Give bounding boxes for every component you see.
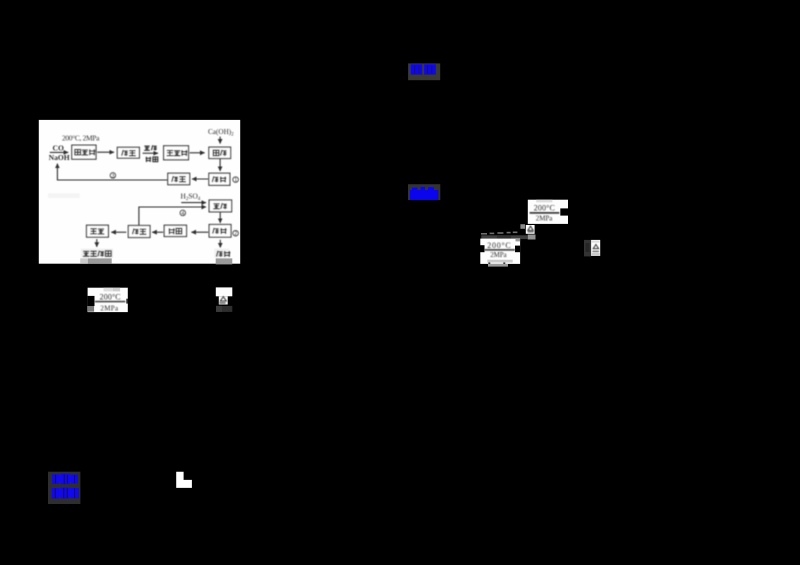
box 酸化 <box>209 200 232 212</box>
blue link row 1 <box>52 474 78 484</box>
label circle 3 <box>110 173 116 179</box>
wire 酸化-过滤2 <box>219 212 221 223</box>
answer link blue block 1 <box>408 63 440 80</box>
label circle 1 <box>233 177 239 183</box>
wire recycle line 3 <box>57 164 167 180</box>
svg-text:1: 1 <box>234 178 237 184</box>
box 分离 <box>128 226 150 238</box>
box 浓缩 2 <box>168 173 190 185</box>
wire H2SO4 arrow <box>181 202 206 204</box>
fragment B1 delta boxlet <box>520 224 535 239</box>
highlight gray under 滤渣 <box>216 258 233 264</box>
wire 过滤2 down <box>219 240 221 248</box>
wire 过滤2-结晶 <box>191 231 208 233</box>
formula fragment B2 white box 200C/2MPa <box>480 239 520 264</box>
svg-text:200°C: 200°C <box>100 292 121 301</box>
box 过滤 1 <box>209 173 230 185</box>
formula fragment B1 white box 200C/2MPa <box>528 200 568 224</box>
wire 草酸钠-钙化 <box>190 152 205 154</box>
svg-text:2: 2 <box>234 231 237 237</box>
bottom-left link block background <box>48 472 80 504</box>
label 草酸成品 <box>83 251 90 256</box>
fragment B3 far right delta <box>584 240 600 257</box>
label 草酸成品 wash <box>81 249 113 258</box>
svg-text:200°C: 200°C <box>534 204 555 213</box>
svg-text:NaOH: NaOH <box>49 153 70 162</box>
svg-text:3: 3 <box>112 173 115 179</box>
wire 分离-干燥 <box>111 231 126 233</box>
label 脱氢 <box>146 157 152 162</box>
answer link blue block 2 <box>408 184 440 200</box>
label circle 4 <box>180 210 186 216</box>
blue link row 2 <box>52 488 79 499</box>
flowchart image white background <box>39 120 240 264</box>
svg-text:4: 4 <box>181 211 184 217</box>
wire 过滤1-浓缩2 <box>192 178 208 180</box>
box 结晶 <box>164 225 186 236</box>
wire 甲酸钠-浓缩 <box>97 151 114 153</box>
box 干燥 <box>87 225 109 237</box>
wire 干燥 down <box>96 239 98 247</box>
wire Ca(OH)2 down <box>219 137 221 144</box>
svg-text:CO: CO <box>53 143 64 152</box>
gray dash row <box>481 232 517 235</box>
wire recycle 4 path <box>139 207 206 225</box>
highlight gray under 草酸成品 <box>80 258 88 263</box>
svg-text:2MPa: 2MPa <box>490 251 507 259</box>
label 滤渣 wash <box>214 249 229 258</box>
label 滤渣 <box>217 251 223 257</box>
dark band above B2 <box>481 235 527 239</box>
box 浓缩 1 <box>117 147 139 158</box>
box 甲酸钠 <box>72 145 96 159</box>
gray strip below B2 <box>488 264 508 267</box>
wire 结晶-分离 <box>152 231 163 233</box>
box 草酸钠 <box>164 146 189 160</box>
svg-text:200°C: 200°C <box>487 241 510 250</box>
svg-text:2MPa: 2MPa <box>536 214 553 222</box>
label 加热 <box>144 146 150 150</box>
wire 加热脱氢 arrow <box>143 152 158 154</box>
box 过滤 2 <box>209 225 231 238</box>
svg-text:2MPa: 2MPa <box>100 304 119 312</box>
svg-text:200°C, 2MPa: 200°C, 2MPa <box>62 133 100 142</box>
formula fragment A white box 200C/2MPa <box>88 288 128 313</box>
white L fragment <box>176 472 192 488</box>
flowchart faint smudge <box>48 193 80 198</box>
wire CO/NaOH fraction bar arrow <box>50 151 68 153</box>
svg-text:H2SO4: H2SO4 <box>181 192 201 202</box>
box 钙化 <box>209 147 231 158</box>
label circle 2 <box>233 230 239 236</box>
formula fragment A2 delta box <box>216 287 233 312</box>
wire 钙化-过滤1 <box>219 159 221 171</box>
